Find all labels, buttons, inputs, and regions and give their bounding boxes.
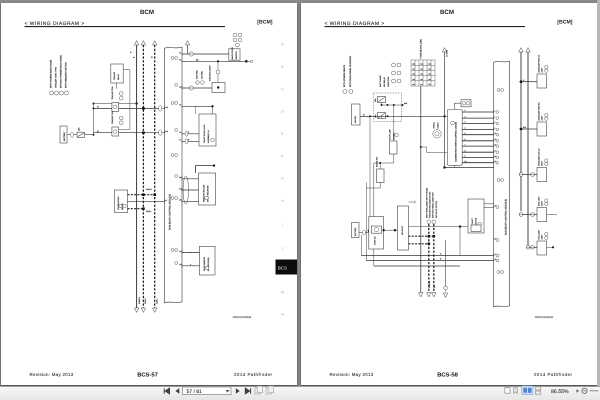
svg-text:143: 143 — [179, 85, 182, 88]
svg-text:TRAILER: TRAILER — [113, 71, 116, 80]
headlamp assembly HIGH LH — [537, 74, 547, 88]
svg-text:G: G — [130, 51, 132, 54]
svg-text:6: 6 — [465, 138, 466, 141]
wire BCM to receiver sig 2 — [182, 189, 199, 191]
BCM connector ref pairs — [497, 89, 500, 92]
connector oval into BCM pin (feed A) — [159, 106, 162, 112]
svg-text:I: I — [282, 222, 283, 226]
section tab BCS — [276, 260, 298, 275]
wire stop lamp row 2 — [366, 260, 493, 262]
svg-text:D: D — [281, 109, 284, 113]
wire S1 output — [374, 154, 394, 163]
svg-text:97: 97 — [179, 51, 181, 54]
svg-text:JRKWD1538GB: JRKWD1538GB — [233, 316, 252, 319]
svg-text:5: 5 — [465, 132, 466, 135]
svg-text:[BCM]: [BCM] — [557, 20, 573, 26]
svg-text:HEADLAMP HIGH RH: HEADLAMP HIGH RH — [537, 102, 540, 121]
wire BCM to mirror 2 — [182, 265, 200, 267]
BCM pin numbers left edge — [165, 106, 168, 204]
svg-text:W/R: W/R — [404, 102, 408, 105]
front fog lamp — [537, 241, 547, 255]
svg-text:10A: 10A — [374, 114, 377, 118]
svg-text:CAN-L: CAN-L — [146, 210, 151, 213]
wire fuse feed bus — [381, 103, 383, 106]
page BCS-57 — [1, 3, 297, 385]
wire stop lamp row 1 — [361, 255, 493, 257]
wire BCM pin to door lock 1 — [182, 133, 199, 135]
svg-text:C: C — [281, 87, 284, 91]
svg-text:4: 4 — [494, 116, 495, 119]
wire dashed trunk down 2 — [433, 224, 435, 293]
svg-text:7: 7 — [465, 143, 466, 146]
door mirror driver side D3 — [200, 246, 216, 275]
back door switch connector refs — [233, 33, 237, 37]
svg-text:2: 2 — [494, 109, 495, 112]
svg-text:19: 19 — [494, 155, 496, 158]
ground wire — [445, 240, 447, 292]
CVT selector inner contact — [471, 225, 481, 232]
svg-text:75: 75 — [179, 104, 181, 107]
viewer toolbar — [0, 386, 600, 400]
svg-text:R: R — [188, 138, 190, 141]
svg-text:10: 10 — [465, 160, 467, 163]
svg-text:B: B — [281, 65, 284, 69]
wire DTRL out — [547, 214, 558, 216]
wire BCM to receiver gnd — [182, 200, 199, 202]
svg-text:15A: 15A — [78, 127, 81, 131]
svg-text:IGN SW: IGN SW — [354, 116, 357, 123]
relay box TRAILER TOW RELAY — [111, 64, 123, 83]
svg-text:21: 21 — [494, 160, 496, 163]
svg-text:101: 101 — [179, 176, 182, 179]
wire antenna trunk V4 — [187, 45, 189, 54]
wire CVT selector to BCM 1 — [484, 203, 494, 205]
battery BAT2 — [352, 223, 360, 238]
wire feed to S1 — [393, 105, 395, 141]
svg-text:3: 3 — [465, 121, 466, 124]
toolbar page-copy icon 2 — [266, 388, 271, 394]
wire stub to spiral cable — [421, 147, 448, 152]
svg-text:SIG: SIG — [433, 284, 436, 288]
svg-text:BATTERY: BATTERY — [63, 131, 66, 141]
svg-text:PUSH-BUTTON IGNITION SW: PUSH-BUTTON IGNITION SW — [429, 192, 432, 218]
svg-text:WITH INTELLIGENT KEY SYSTEM: WITH INTELLIGENT KEY SYSTEM — [425, 187, 428, 218]
connector oval into BCM pin (feed B) — [159, 130, 162, 136]
svg-text:L: L — [190, 251, 191, 254]
svg-text:CAN-H: CAN-H — [146, 188, 152, 191]
brake switch S2 — [377, 169, 385, 183]
CVT shift selector (detention switch) M137 — [468, 199, 484, 233]
svg-text:2014 Pathfinder: 2014 Pathfinder — [234, 372, 273, 377]
BCM pin refs — [496, 111, 499, 114]
svg-text:ASSY: ASSY — [541, 115, 544, 121]
wire trunk V1 (solid) — [136, 45, 138, 308]
fuse block cell numbers — [412, 62, 431, 86]
wire riser grid to ground trunk — [420, 86, 422, 293]
svg-text:8: 8 — [465, 149, 466, 152]
wire BCM to relay coil — [182, 87, 212, 89]
svg-text:BCS-58: BCS-58 — [437, 372, 458, 379]
svg-text:W: W — [151, 56, 154, 58]
svg-text:131: 131 — [165, 106, 168, 109]
section index letters — [281, 42, 284, 316]
svg-text:FUSE ROW: FUSE ROW — [387, 77, 390, 87]
svg-text:V: V — [188, 131, 190, 134]
svg-text:8: 8 — [494, 127, 495, 130]
svg-text:BCM (BODY CONTROL MODULE): BCM (BODY CONTROL MODULE) — [169, 194, 172, 230]
svg-text:17: 17 — [494, 150, 496, 153]
svg-text:TRAILER TOW 7 PIN: TRAILER TOW 7 PIN — [55, 67, 58, 88]
svg-text:118: 118 — [179, 263, 182, 266]
option box W/O POWER BACK DOOR — [352, 104, 361, 125]
toolbar next-page button — [236, 388, 240, 394]
svg-text:15: 15 — [494, 144, 496, 147]
fuse block pin grid — [411, 60, 435, 86]
wire relay bottom to fuse holder — [115, 83, 117, 89]
svg-text:SPIRAL: SPIRAL — [433, 122, 436, 128]
svg-text:E: E — [281, 132, 284, 136]
wire meter to BCM — [128, 201, 165, 203]
svg-text:ASSY: ASSY — [541, 160, 544, 166]
wire battery to junction riser — [85, 134, 94, 136]
svg-text:FRONT DOOR LOCK: FRONT DOOR LOCK — [203, 124, 206, 143]
wire feed A to trailer relay connector — [94, 107, 159, 109]
svg-text:IGN RELAY: IGN RELAY — [383, 76, 386, 87]
wire key slot top stub — [409, 201, 416, 203]
BCM connector refs — [171, 57, 174, 60]
wire color labels — [363, 79, 527, 261]
toolbar prev-page button — [175, 388, 179, 394]
battery BAT — [60, 126, 67, 143]
svg-text:PWR BACK DOOR: PWR BACK DOOR — [209, 65, 212, 81]
svg-text:84: 84 — [179, 59, 181, 62]
wire fog lamp out — [547, 246, 554, 248]
svg-text:10A: 10A — [374, 98, 377, 102]
wire node down to power back door relay — [217, 61, 219, 82]
svg-text:STOP LAMP: STOP LAMP — [389, 129, 392, 140]
BCM pin ticks left edge — [494, 109, 497, 262]
svg-text:9: 9 — [465, 155, 466, 158]
BCM pin numbers right edge — [179, 51, 182, 267]
header rule — [25, 26, 226, 28]
wire CVT row riser — [459, 227, 461, 256]
toolbar page number field — [183, 387, 232, 395]
load trunk L1 with arrow — [520, 52, 522, 211]
svg-text:FUSE BLOCK (J/B): FUSE BLOCK (J/B) — [420, 39, 423, 58]
svg-text:Revision: May 2013: Revision: May 2013 — [330, 372, 374, 377]
svg-text:F: F — [281, 154, 284, 158]
wire ignition dashed output 2 — [409, 243, 429, 245]
svg-text:SHIELD: SHIELD — [428, 281, 431, 288]
svg-text:46: 46 — [494, 237, 496, 240]
fuse block dashed boundary — [374, 93, 402, 122]
wire option box to fuse Fb — [360, 115, 378, 117]
svg-text:ASSY: ASSY — [541, 200, 544, 206]
fuse 10A Fa — [378, 97, 386, 103]
svg-text:WITHOUT POWER BACK DOOR: WITHOUT POWER BACK DOOR — [60, 55, 63, 88]
svg-text:BCM: BCM — [140, 9, 154, 16]
wire dashed trunk down 1 — [428, 224, 430, 293]
svg-text:BATTERY: BATTERY — [354, 227, 357, 236]
wire meter CAN-H (dashed) — [128, 194, 155, 196]
svg-text:RELAY: RELAY — [117, 73, 120, 80]
svg-text:2014 Pathfinder: 2014 Pathfinder — [534, 372, 573, 377]
svg-text:WITH REQUEST SWITCH: WITH REQUEST SWITCH — [65, 62, 68, 88]
svg-text:132: 132 — [165, 130, 168, 133]
key slot module box — [398, 206, 409, 250]
page BCS-58 — [301, 3, 597, 385]
wire CVT selector to BCM 2 — [484, 207, 494, 209]
toolbar zoom-out control — [582, 388, 587, 393]
wire to headlamp assembly HIGH LH — [521, 81, 537, 83]
toolbar single-page view icon — [505, 388, 510, 394]
wire meter CAN-L (dashed) — [128, 208, 144, 210]
svg-text:H: H — [281, 199, 284, 203]
svg-text:76: 76 — [179, 131, 181, 134]
daytime running lamp unit — [537, 208, 547, 222]
svg-text:DTRL UNIT: DTRL UNIT — [537, 196, 540, 206]
wire S2 output down — [365, 183, 367, 261]
svg-text:CAN H: CAN H — [144, 297, 147, 304]
wire to headlamp assembly HIGH RH — [521, 128, 537, 130]
headlamp assembly HIGH RH — [537, 122, 547, 136]
combination switch pin ticks — [461, 111, 463, 165]
wire to headlamp assembly LOW LH — [521, 174, 537, 176]
wire trunk V2 (shielded dashed) — [142, 45, 144, 308]
combination switch output wires to BCM — [462, 112, 494, 163]
svg-text:HEADLAMP HIGH LH: HEADLAMP HIGH LH — [537, 54, 540, 72]
svg-text:WITHOUT INTELLIGENT KEY: WITHOUT INTELLIGENT KEY — [432, 191, 435, 218]
svg-text:HEADLAMP LOW LH: HEADLAMP LOW LH — [537, 148, 540, 166]
svg-text:CAN L: CAN L — [156, 298, 159, 304]
fuse 15A F1 — [77, 132, 85, 137]
BCM module (BODY CONTROL MODULE) — [165, 47, 183, 303]
svg-text:102: 102 — [179, 187, 182, 190]
wire riser to trunk V1 — [94, 103, 137, 105]
svg-text:WITH PBD: WITH PBD — [196, 70, 199, 79]
svg-text:KEY SLOT: KEY SLOT — [401, 225, 404, 235]
wire long ignition feed — [360, 115, 447, 117]
svg-text:COMBINATION: COMBINATION — [117, 196, 120, 210]
connector box above combination switch — [461, 100, 471, 107]
spiral cable horn circle — [433, 130, 441, 138]
wire relay to 7-pin connector (L route) — [119, 70, 130, 130]
svg-text:SWITCH: SWITCH — [235, 51, 238, 59]
toolbar last-page button — [245, 388, 250, 394]
wire battery to ignition switch — [359, 232, 369, 234]
svg-text:ASSY: ASSY — [541, 67, 544, 73]
remote keyless entry receiver R1 — [199, 173, 216, 205]
svg-text:77: 77 — [179, 139, 181, 142]
wire ignition dashed output 1 — [409, 235, 434, 237]
svg-text:BCM: BCM — [440, 9, 454, 16]
svg-text:2: 2 — [465, 115, 466, 118]
relay power back door RLY2 — [212, 83, 225, 93]
svg-text:W: W — [97, 130, 99, 133]
wire BCM to back door node — [182, 60, 246, 62]
svg-text:SHIELD: SHIELD — [138, 297, 141, 304]
wire ignition to key slot — [384, 229, 398, 231]
svg-text:1: 1 — [465, 109, 466, 112]
wire combination switch ground to BCM — [453, 165, 455, 167]
svg-text:WITH DUAL PANEL SUNROOF: WITH DUAL PANEL SUNROOF — [349, 55, 352, 87]
svg-text:4: 4 — [465, 127, 466, 130]
svg-text:6: 6 — [494, 121, 495, 124]
svg-text:TRAILER TOW: TRAILER TOW — [111, 86, 114, 99]
toolbar page-copy icon 1 — [255, 388, 260, 394]
svg-text:103: 103 — [179, 199, 182, 202]
pass-through connector B on feed A — [112, 102, 119, 111]
svg-text:BACK DOOR: BACK DOOR — [231, 47, 234, 60]
svg-text:[BCM]: [BCM] — [257, 20, 273, 26]
combination switch (spiral cable) M30 — [447, 109, 462, 165]
svg-text:< WIRING DIAGRAM >: < WIRING DIAGRAM > — [25, 21, 85, 27]
svg-text:117: 117 — [179, 250, 182, 253]
wire to daytime running lamp unit — [521, 214, 537, 216]
svg-text:45: 45 — [494, 204, 496, 207]
svg-text:BCS: BCS — [278, 266, 287, 271]
front door lock assembly LH (key cylinder switch) — [199, 114, 216, 146]
wire riser to ignition switch assembly — [369, 116, 371, 216]
svg-text:TO PWR: TO PWR — [445, 49, 448, 57]
svg-text:BRAKE SW: BRAKE SW — [376, 157, 379, 167]
svg-text:M: M — [281, 290, 284, 294]
svg-text:JRKWD1539GB: JRKWD1539GB — [535, 316, 554, 319]
svg-text:WITH POWER BACK DOOR: WITH POWER BACK DOOR — [50, 59, 53, 88]
svg-text:PUSH SW: PUSH SW — [374, 236, 377, 245]
svg-text:COMBINATION SWITCH (SPIRAL CAB: COMBINATION SWITCH (SPIRAL CABLE) — [454, 122, 457, 162]
fuse block connector refs — [392, 63, 396, 67]
push-button ignition switch assembly — [369, 217, 384, 250]
svg-text:10: 10 — [494, 132, 496, 135]
wire BCM to key cylinder switch — [182, 105, 213, 107]
svg-text:13: 13 — [494, 138, 496, 141]
wire to front fog lamp — [528, 246, 537, 248]
wire S1 branch down — [373, 163, 375, 266]
svg-text:W: W — [97, 106, 99, 109]
connector on battery wire — [67, 134, 77, 136]
svg-text:47: 47 — [494, 253, 496, 256]
svg-text:CABLE: CABLE — [437, 122, 440, 129]
svg-text:TRAILER TOW: TRAILER TOW — [111, 111, 114, 124]
svg-text:WITH POWER SEATS: WITH POWER SEATS — [343, 64, 346, 87]
wire BCM to back door request switch — [182, 53, 229, 55]
combination switch top stub — [454, 103, 461, 109]
svg-text:BCM (BODY CONTROL MODULE): BCM (BODY CONTROL MODULE) — [505, 199, 508, 235]
svg-text:< WIRING DIAGRAM >: < WIRING DIAGRAM > — [325, 21, 385, 27]
svg-text:N: N — [281, 312, 284, 316]
wire BCM to receiver sig 1 — [182, 178, 199, 180]
svg-text:BCS-57: BCS-57 — [137, 372, 158, 379]
svg-text:Revision: May 2013: Revision: May 2013 — [30, 372, 74, 377]
svg-text:A: A — [281, 42, 284, 46]
wire stop lamp row 3 — [374, 265, 460, 267]
wire trunk V3 (shielded dashed) — [154, 45, 156, 308]
toolbar first-page button — [164, 388, 169, 394]
wire BCM pin to door lock 2 — [182, 140, 199, 142]
fuse 10A Fb — [378, 113, 386, 119]
ignition switch contact — [372, 226, 382, 233]
pass-through connector C on feed B — [112, 127, 119, 136]
load trunk L2 with arrow — [527, 52, 529, 247]
toolbar two-page view icon (active) — [522, 386, 534, 395]
svg-text:G: G — [281, 176, 284, 180]
wire feed to S2 — [379, 163, 381, 169]
svg-text:48: 48 — [494, 258, 496, 261]
legend circled numbers — [50, 91, 54, 95]
wire key slot to CVT selector — [409, 226, 469, 228]
ground symbol — [444, 286, 448, 290]
wire receiver ant out — [196, 166, 215, 173]
headlamp assembly LOW LH — [537, 168, 547, 182]
scrollbar — [597, 0, 600, 386]
toolbar continuous view icon — [536, 387, 541, 390]
toolbar bookmark icon — [514, 387, 518, 393]
header rule — [325, 26, 526, 28]
wire color labels — [97, 51, 199, 266]
svg-text:KEY SLOT OPTION: KEY SLOT OPTION — [435, 200, 438, 218]
wire BCM to mirror 1 — [182, 252, 200, 254]
combination meter M24 — [114, 190, 127, 213]
BCM module (BODY CONTROL MODULE) — [494, 61, 510, 307]
receiver connector (tall oval across wires) — [183, 176, 188, 204]
svg-text:91: 91 — [165, 199, 167, 202]
wire feed B to BCM — [94, 132, 159, 134]
svg-text:W/O PBD: W/O PBD — [201, 71, 204, 79]
svg-text:J: J — [282, 246, 284, 250]
back door request switch S10 — [229, 49, 240, 60]
svg-text:ASSY: ASSY — [541, 234, 544, 240]
svg-text:ASSEMBLY LH: ASSEMBLY LH — [207, 129, 210, 143]
option note circles — [427, 220, 431, 224]
toolbar zoom slider — [590, 390, 599, 392]
junction riser — [93, 104, 95, 135]
svg-text:FOG LAMP: FOG LAMP — [537, 229, 540, 239]
stop lamp switch S1 — [390, 141, 398, 154]
legend circled numbers — [343, 90, 347, 94]
svg-text:BATT SAVER: BATT SAVER — [379, 75, 382, 87]
svg-text:B: B — [133, 56, 136, 58]
wire trunk with arrow (accessory) — [444, 52, 446, 168]
